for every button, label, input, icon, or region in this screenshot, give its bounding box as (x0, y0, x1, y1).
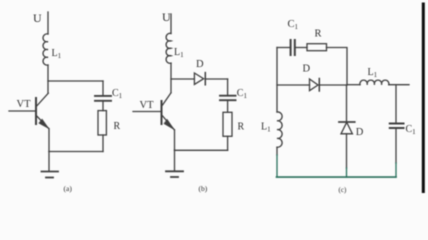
wire collector node to right branch (a) (48, 80, 103, 82)
bottom rail wire (c) teal (277, 176, 397, 178)
label D middle (c) (303, 64, 311, 75)
svg-text:(a): (a) (64, 184, 73, 193)
diode D vertical (c) triangle (341, 122, 352, 134)
inductor L1 left vertical (c) (277, 112, 282, 147)
caption (c) (339, 186, 347, 194)
svg-text:R: R (315, 29, 322, 40)
svg-text:L1: L1 (174, 47, 184, 59)
middle wire right of diode (c) (319, 84, 347, 86)
emitter wire down (b) (174, 130, 176, 150)
collector stroke (a) (37, 93, 49, 106)
emitter stroke with arrow (b) (162, 116, 174, 130)
diode branch vertical wire upper (c) (346, 85, 348, 122)
label R (c) (315, 29, 322, 40)
capacitor C1 top (c) (291, 40, 295, 55)
capacitor C1 (a) (95, 96, 111, 101)
label C1 right (c) (406, 124, 417, 136)
label R (a) (114, 121, 121, 132)
ground stem (b) (174, 150, 176, 171)
svg-text:(b): (b) (199, 184, 208, 193)
caption (b) (199, 184, 208, 193)
wire down to capacitor C1 (a) (102, 81, 104, 96)
wire from U down to inductor L1 (a) (47, 12, 49, 34)
svg-text:VT: VT (140, 100, 155, 111)
base wire (b) (133, 111, 161, 113)
svg-text:C1: C1 (406, 124, 417, 136)
black bar right edge (422, 3, 425, 194)
resistor R (a) (98, 111, 106, 135)
label L1 horizontal (c) (368, 67, 378, 79)
transistor VT (a) base bar (35, 98, 37, 124)
wire from U down to inductor L1 (b) (170, 14, 172, 34)
inductor L1 horizontal (c) (360, 80, 389, 85)
collector stroke (b) (162, 93, 171, 106)
top wire right segment to corner (c) (327, 48, 348, 86)
diode D middle (c) (310, 79, 319, 91)
capacitor branch wire upper (c) (395, 85, 397, 124)
label D vertical (c) (356, 127, 364, 138)
bottom rail wire (b) (175, 149, 228, 151)
label L1 (a) (52, 48, 62, 60)
transistor VT (b) base bar (161, 101, 163, 124)
label R (b) (238, 122, 245, 133)
left vertical wire lower (c) (276, 147, 278, 155)
wire capacitor to resistor (c) (295, 47, 307, 49)
top wire left segment (c) (277, 47, 290, 49)
svg-text:L1: L1 (368, 67, 378, 79)
svg-text:C1: C1 (288, 19, 299, 31)
capacitor C1 right (c) (390, 124, 404, 129)
svg-text:(c): (c) (339, 186, 347, 194)
resistor R (b) (223, 112, 232, 136)
ground bar short (a) (46, 177, 53, 179)
label C1 (b) (237, 88, 248, 100)
wire resistor to bottom rail (a) (102, 135, 104, 152)
wire inductor to collector node (a) (47, 65, 49, 93)
svg-text:VT: VT (17, 99, 32, 110)
svg-text:C1: C1 (237, 88, 248, 100)
wire junction to horizontal inductor (c) (347, 84, 360, 86)
capacitor branch wire lower (c) (395, 128, 397, 163)
middle wire left segment (c) (277, 84, 310, 86)
ground bar short (b) (171, 176, 178, 178)
svg-text:R: R (238, 122, 245, 133)
capacitor C1 (b) (220, 96, 236, 101)
label D (b) (196, 59, 204, 70)
wire inductor to open stub (c) (389, 84, 409, 86)
label L1 (b) (174, 47, 184, 59)
wire collector node to diode (b) (171, 78, 194, 80)
wire capacitor to resistor (b) (227, 100, 229, 112)
svg-text:L1: L1 (261, 122, 271, 134)
svg-text:U: U (33, 11, 42, 25)
svg-text:D: D (356, 127, 364, 138)
caption (a) (64, 184, 73, 193)
node U (supply) label circuit b (162, 10, 171, 24)
wire capacitor to resistor (a) (102, 101, 104, 111)
wire diode to right branch (b) (205, 78, 227, 80)
diode D (b) (194, 73, 203, 84)
resistor R (c) (307, 44, 327, 51)
svg-text:L1: L1 (52, 48, 62, 60)
diode D vertical (c) cathode bar (339, 121, 355, 123)
inductor L1 (b) (166, 33, 171, 63)
node U (supply) label circuit a (33, 11, 42, 25)
label C1 (a) (112, 88, 123, 100)
label L1 left (c) (261, 122, 271, 134)
wire down to capacitor C1 (b) (227, 79, 229, 96)
transistor VT (b) label (140, 100, 155, 111)
diode branch vertical wire lower (c) (346, 134, 348, 168)
bottom rail wire (a) (49, 151, 103, 153)
svg-text:D: D (303, 64, 311, 75)
transistor VT (a) label (17, 99, 32, 110)
emitter wire down (a) (48, 129, 50, 152)
ground bar long (a) (42, 171, 59, 173)
inductor L1 (a) (43, 34, 48, 65)
svg-text:C1: C1 (112, 88, 123, 100)
left vertical wire upper (c) (276, 48, 278, 113)
ground bar long (b) (166, 170, 183, 172)
label C1 top (c) (288, 19, 299, 31)
svg-text:D: D (196, 59, 204, 70)
svg-text:U: U (162, 10, 171, 24)
emitter stroke with arrow (a) (37, 116, 49, 129)
ground stem (a) (48, 152, 50, 171)
svg-text:R: R (114, 121, 121, 132)
wire resistor to bottom rail (b) (227, 136, 229, 150)
base wire (a) (9, 110, 35, 112)
wire inductor to collector node (b) (170, 63, 172, 93)
